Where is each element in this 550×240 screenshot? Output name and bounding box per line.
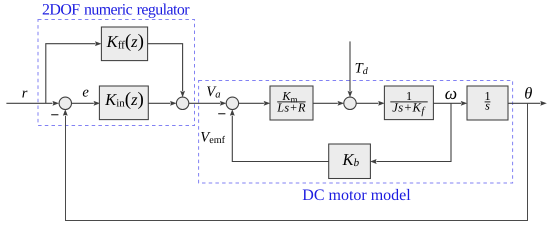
block Kin(z) — [99, 86, 148, 120]
summing junction S3 — [226, 97, 238, 109]
svg-text:r: r — [22, 85, 28, 101]
svg-text:θ: θ — [524, 84, 532, 103]
svg-text:s: s — [485, 99, 490, 113]
dashed box: 2DOF numeric regulator — [38, 20, 195, 126]
svg-text:e: e — [82, 85, 89, 101]
wire: S3 to Km block — [239, 101, 271, 106]
summing junction S2 — [176, 97, 188, 109]
wire: Kin to summing junction S2 — [148, 101, 176, 106]
block 1/(Js+Kf) — [384, 86, 433, 120]
svg-text:Kin(z): Kin(z) — [104, 89, 144, 110]
summing junction S4 — [344, 97, 356, 109]
minus sign at S3 — [218, 113, 225, 115]
svg-text:2DOF numeric regulator: 2DOF numeric regulator — [42, 2, 190, 19]
block Kb — [329, 144, 371, 179]
wire: S4 to 1/(Js+Kf) block — [356, 101, 385, 106]
svg-text:DC motor model: DC motor model — [302, 187, 411, 204]
wire: r input into summing junction S1 — [6, 101, 59, 106]
block Km/(Ls+R) — [270, 86, 313, 120]
wire: S1 to Kin (signal e) — [72, 101, 101, 106]
wire: branch from r up to Kff — [46, 41, 102, 103]
wire: Km to summing junction S4 — [313, 101, 344, 106]
wire: 1/s to output theta — [508, 101, 547, 106]
svg-text:Kff(z): Kff(z) — [106, 31, 144, 52]
svg-text:Ls+R: Ls+R — [276, 101, 306, 115]
block 1/s — [467, 86, 508, 120]
wire: 1/(Js+Kf) to 1/s (signal omega) — [433, 101, 467, 106]
wire: S2 to S3 (signal Va) — [189, 101, 227, 106]
wire: omega branch down and left into Kb — [370, 103, 451, 164]
wire: theta feedback down, left and up into S1 — [63, 103, 528, 220]
wire: Td disturbance input down to S4 — [348, 41, 353, 97]
svg-text:Js+Kf: Js+Kf — [392, 100, 426, 116]
wire: Kff output down to S2 — [148, 44, 185, 98]
dashed box: DC motor model — [199, 81, 513, 184]
wire: Kb output (Vemf) left and up into S3 — [230, 109, 329, 161]
svg-text:ω: ω — [445, 83, 457, 103]
block Kff(z) — [101, 27, 147, 61]
minus sign at S1 — [51, 114, 58, 116]
summing junction S1 — [59, 97, 71, 109]
